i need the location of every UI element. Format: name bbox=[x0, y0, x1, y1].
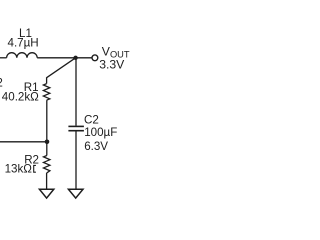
ground (below C2) bbox=[68, 189, 83, 198]
svg-text:100µF: 100µF bbox=[84, 126, 117, 139]
resistor R1 bbox=[43, 84, 49, 101]
svg-text:40.2kΩ: 40.2kΩ bbox=[2, 91, 39, 104]
wire: horizontal wire to node B (to FB pin, off canvas) bbox=[0, 141, 47, 143]
wire: R1 top lead bbox=[46, 77, 48, 83]
svg-text:3.3V: 3.3V bbox=[99, 58, 125, 72]
wire: diagonal from node A to R1 bbox=[47, 58, 76, 78]
VOUT terminal circle bbox=[92, 55, 98, 61]
wire: left lead into L1 bbox=[0, 57, 7, 59]
cropped bracket after 13k ohm bbox=[34, 165, 36, 172]
wire: node A down to C2 bbox=[75, 58, 77, 126]
svg-text:4.7µH: 4.7µH bbox=[8, 37, 39, 50]
node A junction dot bbox=[73, 56, 77, 60]
wire: R2 bottom lead to ground bbox=[46, 173, 48, 189]
capacitor C2 bbox=[68, 126, 84, 130]
inductor L1 bbox=[7, 53, 38, 58]
resistor R2 bbox=[44, 156, 50, 173]
node B junction dot bbox=[45, 140, 50, 145]
svg-text:C2: C2 bbox=[84, 113, 99, 126]
wire: R2 top lead bbox=[46, 142, 48, 156]
wire: C2 bottom lead to ground bbox=[75, 131, 77, 188]
svg-text:13kΩ: 13kΩ bbox=[5, 163, 33, 176]
svg-text:2: 2 bbox=[0, 76, 3, 89]
wire: L1 to VOUT node bbox=[37, 57, 91, 59]
wire: R1 bottom lead to node B bbox=[46, 100, 48, 142]
ground (below R2) bbox=[39, 189, 53, 198]
svg-text:6.3V: 6.3V bbox=[84, 140, 108, 153]
